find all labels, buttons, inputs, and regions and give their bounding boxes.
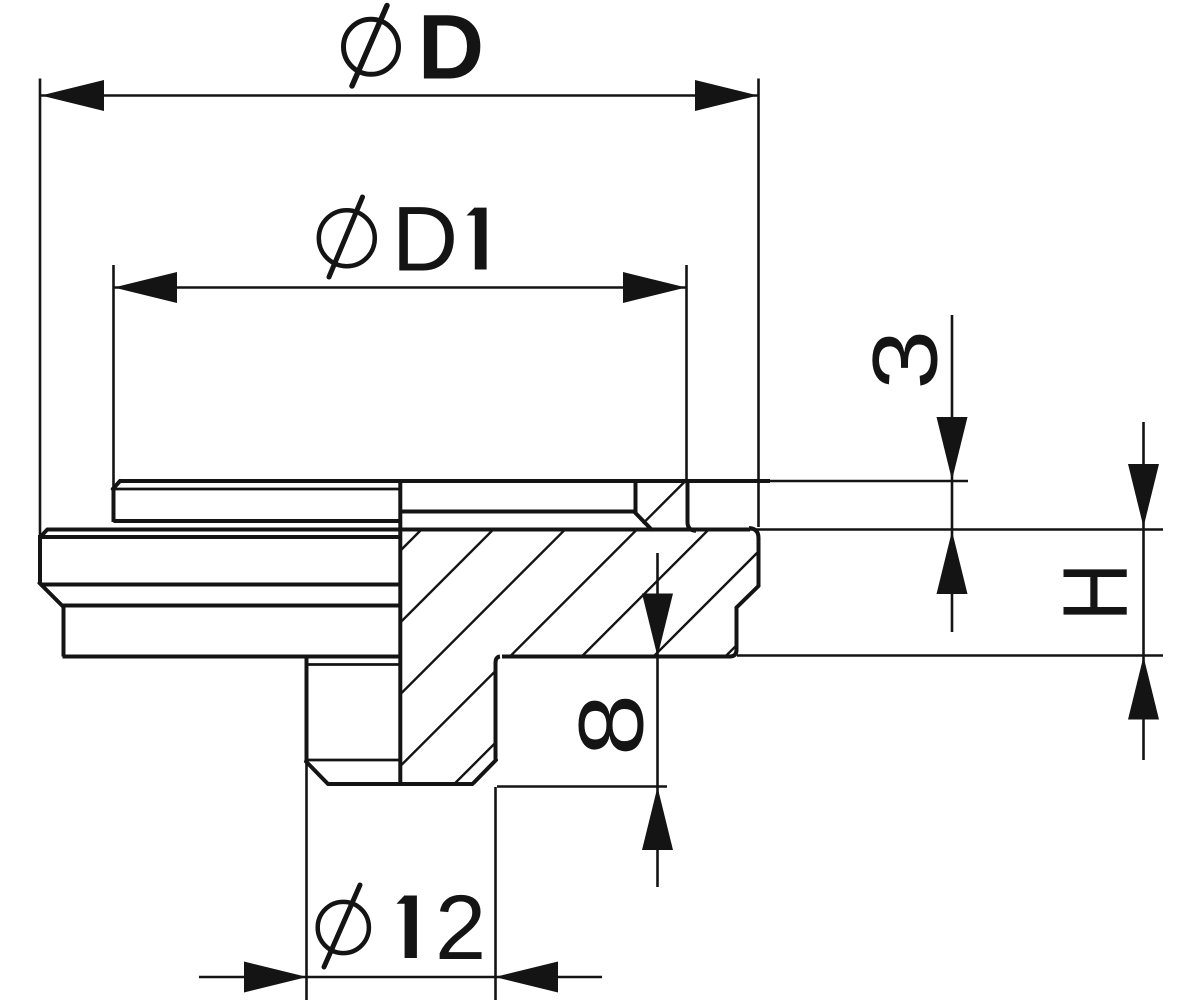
dimension 12 arrow pointing right: [244, 962, 307, 993]
stem bottom-left chamfer: [306, 762, 328, 785]
dimension D1 arrow right: [623, 272, 686, 303]
dimension D1 extension line left (x=113.5): [112, 265, 115, 492]
dimension D arrow left: [41, 80, 104, 111]
flange bottom edge left half (y=656.5): [63, 655, 399, 659]
dimension H leader line upper (x=1143.5): [1142, 422, 1145, 760]
flange right lower edge: [730, 607, 737, 657]
stem bottom-right chamfer (section): [474, 760, 497, 783]
stem left extension line to dia 12: [305, 762, 308, 1000]
chamfer lower edge circle (y=605.5): [62, 604, 400, 608]
label dia D1: digit 1 (narrow style): [467, 207, 487, 269]
svg-text:3: 3: [854, 330, 957, 390]
boss top chamfer edge circle (y=490): [116, 488, 399, 491]
recess chamfer to flange top: [635, 512, 652, 530]
flange lower-right chamfer (section): [737, 586, 759, 608]
centre axis / section boundary: [398, 480, 402, 784]
label dia D: diameter symbol circle: [344, 19, 399, 74]
flange top-left chamfer: [41, 530, 48, 537]
svg-text:2: 2: [435, 877, 486, 979]
boss left edge: [112, 489, 116, 522]
svg-text:8: 8: [559, 694, 662, 756]
dimension D1 extension line right (x=686.5): [685, 265, 688, 481]
dimension 3 arrow down: [937, 417, 968, 480]
stem left edge: [305, 657, 309, 763]
flange bottom edge right section (y=656.5): [502, 655, 731, 659]
dimension D extension line right (x=758.5): [757, 79, 760, 528]
stem right edge (section): [496, 657, 501, 761]
flange lower-left chamfer silhouette: [40, 583, 64, 607]
stem bottom face (y=784): [328, 782, 474, 786]
top face edge (y=481) with extension toward dim 3: [119, 479, 770, 483]
dimension D1 arrow left: [114, 272, 177, 303]
label dia 12: diameter symbol slash: [324, 885, 360, 967]
flange top face (y=529.5) across part: [47, 528, 751, 532]
svg-text:D: D: [392, 188, 458, 290]
flange top-right rounded corner and outer edge: [749, 528, 759, 587]
flange top edge extension to H dimension: [750, 528, 1163, 531]
dimension 12 line (y=977): [199, 976, 602, 979]
dimension 3 arrow up: [937, 531, 968, 594]
stem bottom extension toward dim 8 (y=786.5): [497, 785, 667, 788]
recess wall (x=636): [634, 481, 638, 513]
label dia D1: diameter symbol circle: [319, 210, 375, 266]
stem chamfer edge circle (y=760): [308, 759, 399, 762]
svg-text:H: H: [1045, 563, 1147, 621]
dimension D line (y=95.5): [41, 94, 758, 97]
flange left outer edge: [38, 535, 42, 584]
label dia 12: diameter symbol circle: [318, 902, 369, 953]
flange lower-left outer edge (x=63.5): [62, 606, 66, 657]
dimension H arrow up: [1128, 657, 1159, 720]
dimension D extension line left (x=40): [39, 79, 42, 538]
dimension 3 leader line upper (x=952): [951, 315, 954, 632]
dimension H arrow down: [1128, 464, 1159, 527]
dimension 8 leader line upper (x=657.5): [656, 553, 659, 887]
boss right edge into flange (section): [688, 481, 697, 531]
dimension 8 arrow up: [642, 787, 673, 850]
dimension 12 arrow pointing left: [495, 962, 558, 993]
boss base edge circle left (y=520.5): [114, 519, 401, 523]
stem root edge circle (y=664.5): [308, 663, 399, 666]
dimension 8 arrow down: [642, 594, 673, 657]
chamfer upper edge circle (y=584.5): [40, 583, 400, 587]
flange bottom extension to H dimension: [737, 654, 1163, 657]
dimension D1 line (y=287.5): [114, 286, 686, 289]
dimension D arrow right: [695, 80, 758, 111]
stem right extension line to dia 12: [494, 787, 497, 1000]
label dia D: diameter symbol slash: [352, 6, 387, 87]
flange top outer edge circle left (y=536.5): [40, 535, 400, 539]
label dia 12: text 12: [397, 895, 417, 958]
recess floor edge right (y=513): [399, 510, 635, 514]
boss left chamfer: [113, 481, 120, 489]
svg-text:D: D: [418, 0, 484, 98]
label dia D1: diameter symbol slash: [329, 197, 363, 277]
